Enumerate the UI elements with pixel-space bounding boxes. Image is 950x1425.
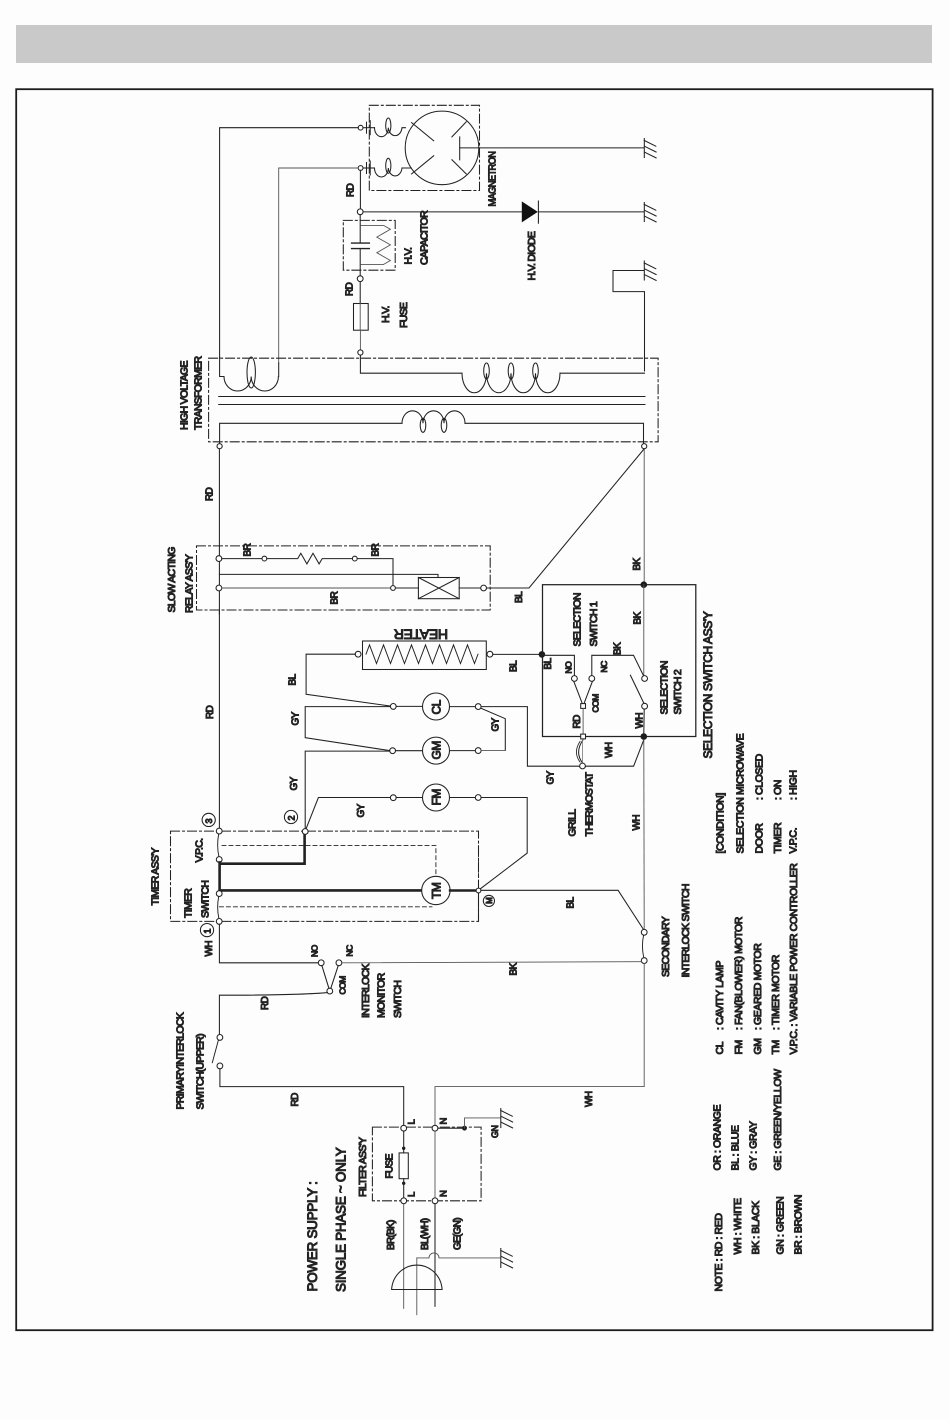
svg-text:RD: RD	[345, 282, 356, 296]
switch1 COM square	[581, 704, 586, 709]
TM output node	[476, 888, 481, 893]
svg-text:H.V. DIODE: H.V. DIODE	[526, 231, 538, 280]
wire: secondary right lead	[560, 372, 645, 374]
wire: relay output diagonal to transformer	[487, 449, 645, 588]
grill thermostat	[576, 740, 583, 764]
wire: TM node to BL diagonal	[481, 890, 644, 930]
svg-text:BL: BL	[288, 673, 299, 685]
wire: BL(WH) line to plug	[434, 1204, 436, 1307]
wire: diode to chassis	[538, 211, 643, 213]
fuse terminal dots	[402, 1147, 405, 1185]
relay coil (X-box)	[418, 578, 459, 599]
ground (transformer secondary)	[644, 261, 656, 280]
wire: node to diode	[363, 211, 522, 213]
wire: lower branch	[222, 587, 391, 589]
wire: capacitor lower plate down	[359, 249, 361, 276]
svg-text:TM: TM	[770, 1040, 782, 1054]
node WH bottom of assy	[641, 733, 648, 740]
svg-text:: VARIABLE POWER CONTROLLER: : VARIABLE POWER CONTROLLER	[788, 863, 800, 1027]
svg-text:GE : GREEN/YELLOW: GE : GREEN/YELLOW	[772, 1069, 784, 1171]
GM left terminal	[390, 748, 396, 754]
wire: WH long drop	[643, 740, 645, 930]
H.V. capacitor dash-dot box	[343, 220, 395, 270]
svg-text:N: N	[439, 1118, 450, 1125]
wire: fuse to L bottom	[403, 1179, 405, 1198]
svg-text:BK: BK	[613, 642, 624, 655]
cavity lamp CL	[423, 693, 450, 720]
wire: L through fuse	[403, 1131, 405, 1153]
monitor NO terminal	[318, 960, 324, 966]
svg-text:THERMOSTAT: THERMOSTAT	[584, 771, 596, 836]
wire: coil to right terminal	[459, 587, 481, 589]
svg-text:BL: BL	[509, 660, 520, 672]
svg-text:H.V.: H.V.	[403, 248, 415, 265]
wire: TM bold right	[450, 889, 476, 892]
condition block	[715, 733, 800, 853]
svg-text:TRANSFORMER: TRANSFORMER	[193, 355, 205, 430]
contact 1 lower circle	[216, 919, 222, 925]
svg-text:H.V.: H.V.	[380, 306, 392, 323]
svg-text:: CAVITY LAMP: : CAVITY LAMP	[714, 961, 726, 1030]
svg-text:SELECTION SWITCH ASS'Y: SELECTION SWITCH ASS'Y	[701, 611, 715, 758]
transformer primary winding	[402, 411, 465, 424]
fan motor FM	[423, 784, 450, 811]
wire: CL leads	[396, 705, 475, 707]
node: primary right terminal	[642, 444, 647, 449]
relay terminal upper	[216, 556, 222, 562]
ground (filter)	[501, 1109, 513, 1128]
switch1 blades to COM	[574, 681, 593, 703]
filter choke L1	[375, 128, 406, 137]
wire: RD relay to timer contact 3	[218, 610, 220, 828]
wire: switch1 NC feed	[592, 655, 644, 676]
svg-text:SELECTION: SELECTION	[659, 661, 671, 714]
magnetron anode vanes	[412, 122, 467, 174]
svg-text:V.P.C.: V.P.C.	[788, 1029, 800, 1055]
svg-text:NO: NO	[564, 661, 574, 674]
grill thermostat terminal	[580, 763, 586, 769]
wire: node to fuse	[359, 282, 361, 304]
svg-text:SWITCH(UPPER): SWITCH(UPPER)	[195, 1034, 207, 1110]
svg-text:COM: COM	[338, 976, 348, 995]
svg-text:RD: RD	[346, 183, 357, 197]
FM left terminal	[390, 795, 396, 801]
svg-text:INTERLOCK SWITCH: INTERLOCK SWITCH	[680, 884, 692, 977]
svg-text:GM: GM	[430, 741, 444, 760]
ground (magnetron)	[644, 139, 656, 158]
svg-text:BK: BK	[632, 557, 643, 570]
svg-text:[CONDITION]: [CONDITION]	[715, 793, 727, 854]
svg-text:WH : WHITE: WH : WHITE	[732, 1198, 744, 1254]
svg-text:BR : BROWN: BR : BROWN	[793, 1195, 805, 1255]
svg-text:WH: WH	[632, 815, 643, 831]
wire: filament lead upper to transformer	[220, 128, 359, 357]
switch1 NO terminal	[572, 676, 578, 682]
wire: GE(GN) earth lead with hop	[417, 1253, 501, 1258]
contact 2 badge	[284, 810, 297, 823]
transformer secondary winding	[462, 373, 560, 393]
M badge	[483, 895, 494, 906]
contact 1 badge	[200, 924, 213, 937]
svg-text:BR(BK): BR(BK)	[386, 1220, 397, 1250]
svg-text:M: M	[485, 897, 494, 904]
svg-text:1: 1	[203, 929, 213, 934]
wire: vertical through relay	[218, 556, 220, 614]
magnetron filament terminal 1	[358, 125, 363, 130]
svg-text:FM: FM	[733, 1040, 745, 1054]
mains plug dome	[392, 1265, 443, 1289]
svg-text:MONITOR: MONITOR	[376, 972, 388, 1018]
svg-text:BL : BLUE: BL : BLUE	[730, 1125, 742, 1170]
geared motor GM	[423, 737, 450, 764]
svg-text:FUSE: FUSE	[398, 302, 410, 328]
svg-text:OR : ORANGE: OR : ORANGE	[712, 1104, 724, 1170]
magnetron body circle	[405, 111, 479, 185]
wire: GE(GN) pin	[416, 1258, 418, 1315]
svg-text:N: N	[439, 1190, 450, 1197]
header gray bar	[16, 25, 932, 63]
contact 3 badge	[202, 813, 215, 826]
H.V. diode	[522, 201, 539, 223]
relay middle link line	[219, 574, 438, 577]
CL right terminal	[475, 704, 481, 710]
wire: branch A corner	[357, 559, 393, 586]
svg-text:HIGH VOLTAGE: HIGH VOLTAGE	[179, 360, 191, 430]
svg-text:NOTE : RD : RED: NOTE : RD : RED	[713, 1213, 725, 1292]
GM right terminal	[475, 748, 481, 754]
relay terminal lower	[216, 585, 222, 591]
svg-text:L: L	[407, 1192, 418, 1197]
VPC mech dashed link upper	[222, 846, 436, 876]
switch1 NC terminal	[589, 676, 595, 682]
secondary interlock top terminal	[641, 929, 647, 935]
filter choke L2	[375, 168, 412, 177]
magnetron filament terminal 2	[358, 166, 363, 171]
svg-text:DOOR: DOOR	[754, 823, 766, 854]
node on transformer top	[358, 350, 363, 355]
svg-text:CL: CL	[430, 699, 444, 714]
svg-text:RELAY ASS'Y: RELAY ASS'Y	[184, 554, 196, 613]
svg-text:GY: GY	[291, 711, 302, 725]
svg-text:TM: TM	[430, 882, 444, 899]
wire: BL to switch1 NO	[542, 655, 575, 675]
svg-text:SELECTION: SELECTION	[735, 798, 747, 854]
svg-text:BL: BL	[514, 591, 525, 603]
wire: BK inside assy	[643, 585, 645, 676]
wire: BK drop from right node	[643, 449, 645, 582]
monitor COM terminal	[327, 988, 333, 994]
wire: ladder GM to contact 2	[305, 751, 390, 829]
magnetron cathode bar	[459, 137, 461, 160]
wire: branch to thermal resistor	[222, 558, 262, 560]
wire: GN tap	[438, 1127, 465, 1129]
bleed resistor (zigzag)	[361, 225, 390, 264]
svg-text:BR: BR	[330, 591, 341, 604]
svg-text:TIMER: TIMER	[772, 822, 784, 853]
wire: choke stubs to terminals	[363, 128, 375, 168]
wire: terminal2 down to HV node	[359, 170, 361, 209]
svg-text:BR: BR	[243, 543, 254, 556]
wire: secondary interlock to filter N	[435, 964, 644, 1126]
wire: BR(BK) line to plug	[403, 1204, 405, 1309]
switch blade CL right	[481, 708, 505, 750]
wire: RD drop to relay	[218, 449, 220, 556]
svg-text:3: 3	[204, 818, 214, 823]
svg-text:INTERLOCK: INTERLOCK	[360, 964, 372, 1018]
wire: NC to secondary interlock	[342, 962, 642, 963]
slow acting relay dash-dot box	[197, 546, 491, 610]
svg-text:BK: BK	[509, 962, 520, 975]
svg-text:FILTER ASS'Y: FILTER ASS'Y	[357, 1137, 369, 1197]
svg-text:COM: COM	[591, 694, 601, 713]
filter assy dash-dot box	[372, 1127, 481, 1201]
svg-text:SWITCH: SWITCH	[200, 881, 212, 918]
svg-text:BR: BR	[371, 543, 382, 556]
svg-text:SINGLE PHASE ~ ONLY: SINGLE PHASE ~ ONLY	[334, 1147, 349, 1292]
wire: FM leads	[396, 797, 475, 799]
svg-text:RD: RD	[290, 1093, 301, 1107]
svg-text:V.P.C.: V.P.C.	[194, 839, 206, 863]
contact 1 blade	[218, 897, 219, 919]
primary interlock blade	[212, 1040, 218, 1063]
wire: COM RD drop	[582, 708, 584, 734]
wire: timer contact1 to monitor switch	[219, 924, 318, 963]
svg-text:: CLOSED: : CLOSED	[754, 753, 766, 800]
svg-text:RD: RD	[205, 487, 216, 501]
svg-text:CL: CL	[714, 1041, 726, 1054]
wire: primary right lead	[465, 423, 644, 443]
svg-text:HEATER: HEATER	[394, 627, 448, 643]
svg-text:FUSE: FUSE	[385, 1153, 396, 1178]
wire: contact2 diagonal to FM feed	[306, 798, 390, 830]
secondary interlock blade	[642, 935, 643, 958]
wire: heater left feed	[306, 654, 391, 706]
heater element zigzag	[366, 645, 478, 664]
svg-text:BL: BL	[543, 657, 554, 669]
switch2 blade	[630, 675, 644, 703]
svg-text:WH: WH	[604, 742, 615, 758]
feedthrough capacitor plates (terminal 2)	[367, 161, 371, 175]
filter terminal L (bottom)	[401, 1198, 407, 1204]
svg-text:: MICROWAVE: : MICROWAVE	[735, 733, 747, 800]
ground (H.V. diode)	[644, 203, 656, 222]
legend NOTE column	[713, 1195, 805, 1292]
svg-text:BL(WH): BL(WH)	[420, 1218, 431, 1250]
svg-text:WH: WH	[635, 713, 646, 729]
svg-text:GRILL: GRILL	[567, 809, 579, 837]
svg-text:GY : GRAY: GY : GRAY	[748, 1121, 760, 1171]
svg-text:TIMER: TIMER	[183, 888, 195, 918]
heater terminal left	[355, 651, 361, 657]
node BL on assy edge	[539, 651, 546, 658]
svg-text:WH: WH	[584, 1091, 595, 1107]
filter terminal N (bottom)	[432, 1198, 438, 1204]
wire: FM right drop	[480, 798, 528, 890]
svg-text:SECONDARY: SECONDARY	[660, 916, 672, 977]
wire: node to coil	[395, 587, 418, 589]
contact 3 blade	[218, 834, 219, 857]
heater terminal right	[487, 651, 493, 657]
svg-text:RD: RD	[205, 705, 216, 719]
line fuse body	[399, 1153, 408, 1179]
svg-text:SWITCH 2: SWITCH 2	[672, 669, 684, 714]
svg-text:NC: NC	[599, 661, 609, 673]
node circle (resistor left)	[262, 556, 267, 561]
VPC bold wire	[220, 834, 422, 890]
filter terminal L (top)	[401, 1125, 407, 1131]
FM right terminal	[475, 795, 481, 801]
wire: thermostat to WH node diagonal	[585, 740, 643, 766]
CL left terminal	[390, 704, 396, 710]
switch2 top terminal	[642, 676, 648, 682]
svg-text:: GEARED MOTOR: : GEARED MOTOR	[752, 943, 764, 1030]
H.V. fuse body	[354, 304, 369, 331]
high voltage transformer dash-dot box	[209, 358, 658, 442]
wire: fuse to transformer node	[359, 330, 361, 349]
svg-text:FM: FM	[430, 789, 444, 806]
wire: CL right to grill thermostat	[481, 707, 579, 767]
node: primary left terminal	[217, 444, 222, 449]
wire: GN to chassis	[465, 1118, 501, 1128]
svg-text:: TIMER MOTOR: : TIMER MOTOR	[770, 954, 782, 1030]
svg-text:V.P.C.: V.P.C.	[788, 828, 800, 854]
node circle (lower branch)	[391, 586, 396, 591]
svg-text:CAPACITOR: CAPACITOR	[419, 210, 431, 265]
primary interlock top terminal	[217, 1035, 223, 1041]
TM mech dashed link lower	[219, 906, 432, 908]
svg-text:GN : GREEN: GN : GREEN	[775, 1197, 787, 1255]
wire: anode output to chassis	[460, 147, 644, 149]
transformer filament winding	[220, 357, 279, 391]
magnetron dash-dot enclosure	[369, 105, 479, 190]
capacitor C (plates)	[352, 243, 370, 249]
contact 2 terminal	[302, 829, 308, 835]
wire: COM to primary interlock	[219, 993, 327, 1035]
node below capacitor	[357, 276, 363, 282]
svg-text:BK : BLACK: BK : BLACK	[750, 1201, 762, 1255]
node: HV junction	[357, 209, 363, 215]
contact 3 lower circle	[216, 857, 222, 863]
timer motor TM	[422, 876, 450, 904]
monitor blades	[322, 966, 338, 989]
legend wire colours group2	[712, 1069, 785, 1171]
contact 3 terminal	[216, 828, 222, 834]
node GN	[462, 1126, 467, 1131]
primary interlock bottom terminal	[217, 1063, 223, 1069]
svg-text:WH: WH	[204, 941, 215, 957]
svg-text:GE(GN): GE(GN)	[453, 1218, 464, 1250]
timer assy dash-dot box	[171, 831, 479, 921]
wire: GM leads	[396, 750, 476, 752]
node circle (resistor right)	[352, 556, 357, 561]
ground (mains earth)	[501, 1249, 513, 1268]
wire: primary interlock to filter L	[220, 1069, 404, 1126]
svg-text:TIMER ASS'Y: TIMER ASS'Y	[150, 847, 162, 905]
svg-text:: HIGH: : HIGH	[788, 770, 800, 800]
wire: filament lead lower to transformer	[279, 168, 359, 363]
svg-text:SLOW ACTING: SLOW ACTING	[166, 547, 178, 613]
timer box right edge	[478, 846, 480, 887]
svg-text:GN: GN	[490, 1125, 500, 1138]
wire: N through filter	[434, 1131, 436, 1198]
svg-text:RD: RD	[260, 996, 271, 1010]
svg-text:NO: NO	[310, 944, 320, 957]
filter terminal N (top)	[432, 1125, 438, 1131]
svg-text:PRIMARYINTERLOCK: PRIMARYINTERLOCK	[175, 1012, 187, 1109]
wire: node into capacitor	[359, 215, 361, 243]
heater box	[363, 641, 487, 670]
relay output terminal	[481, 585, 487, 591]
svg-text:BK: BK	[633, 611, 644, 624]
svg-text:POWER SUPPLY :: POWER SUPPLY :	[305, 1181, 320, 1291]
wire: GM right stub	[481, 749, 505, 751]
svg-text:2: 2	[286, 815, 296, 820]
legend component abbreviations	[714, 863, 800, 1055]
feedthrough capacitor plates (terminal 1)	[367, 121, 371, 135]
svg-text:RD: RD	[572, 715, 583, 729]
svg-text:GY: GY	[546, 770, 557, 784]
node BK top of assy	[641, 581, 648, 588]
svg-text:: ON: : ON	[772, 780, 784, 800]
wire: ground jog to transformer	[613, 271, 645, 372]
svg-text:SWITCH: SWITCH	[392, 981, 404, 1018]
svg-text:GM: GM	[752, 1038, 764, 1054]
svg-text:GY: GY	[356, 803, 367, 817]
svg-text:GY: GY	[491, 717, 502, 731]
svg-text:SELECTION: SELECTION	[572, 593, 584, 646]
svg-text:BL: BL	[566, 896, 577, 908]
thermal resistor zigzag	[267, 553, 353, 564]
svg-text:L: L	[407, 1119, 418, 1124]
wire: ladder CL to GM	[305, 707, 390, 751]
wire: secondary left lead	[360, 355, 462, 373]
svg-text:GY: GY	[289, 776, 300, 790]
square terminal bottom of assy	[581, 734, 586, 739]
wire: switch2 to WH node	[643, 709, 645, 733]
svg-text:SWITCH 1: SWITCH 1	[588, 601, 600, 646]
selection switch assy box	[543, 585, 696, 737]
wire: primary left lead	[220, 423, 402, 443]
svg-text:: FAN(BLOWER) MOTOR: : FAN(BLOWER) MOTOR	[733, 916, 745, 1030]
wire: heater right to BL node	[493, 653, 542, 655]
secondary interlock bottom terminal	[641, 958, 647, 964]
switch2 bottom terminal	[642, 703, 648, 709]
monitor NC terminal	[336, 960, 342, 966]
contact 1 terminal	[216, 891, 222, 897]
svg-text:MAGNETRON: MAGNETRON	[487, 151, 499, 206]
transformer core lines	[219, 397, 645, 405]
svg-text:NC: NC	[345, 945, 355, 957]
